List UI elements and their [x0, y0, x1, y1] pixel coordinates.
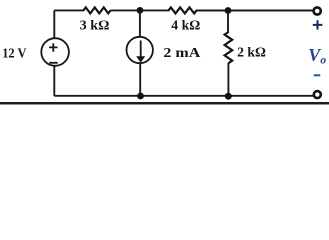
svg-text:3 kΩ: 3 kΩ — [80, 19, 110, 34]
wire top rail left segment — [54, 9, 84, 11]
wire current source top — [139, 10, 141, 37]
voltage source 12 V — [41, 38, 69, 66]
svg-text:2 mA: 2 mA — [163, 46, 201, 61]
current source 2 mA — [127, 37, 153, 63]
node junction top at 2 kOhm — [225, 7, 232, 14]
wire 2 kOhm bottom — [227, 63, 229, 96]
wire 2 kOhm top — [227, 11, 229, 33]
node junction top at current source — [137, 7, 144, 14]
resistor 4 kOhm zigzag — [169, 7, 197, 13]
wire top rail middle segment — [111, 9, 170, 11]
wire left branch upper — [53, 10, 55, 38]
wire left branch lower — [53, 66, 55, 96]
label minus polarity (blue) — [314, 74, 321, 76]
wire current source bottom — [139, 63, 141, 96]
node junction bottom at 2 kOhm — [225, 93, 232, 100]
svg-text:12 V: 12 V — [2, 46, 26, 61]
svg-text:2 kΩ: 2 kΩ — [237, 46, 266, 61]
wire bottom rail — [54, 95, 313, 97]
svg-text:4 kΩ: 4 kΩ — [171, 19, 200, 34]
wire top rail right segment — [196, 10, 313, 12]
terminal top output — [314, 7, 321, 14]
terminal bottom output — [314, 91, 321, 98]
label plus polarity (blue) — [313, 20, 323, 29]
resistor 3 kOhm zigzag — [84, 7, 111, 13]
node junction bottom at current source — [137, 93, 144, 100]
resistor 2 kOhm vertical zigzag — [225, 32, 233, 63]
